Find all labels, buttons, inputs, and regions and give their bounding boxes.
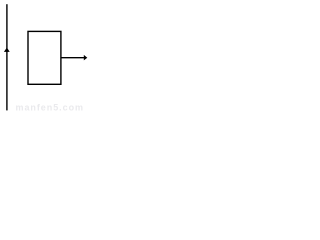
svg-text:manfen5.com: manfen5.com bbox=[16, 103, 84, 113]
arrowhead: rightward arrow bbox=[84, 55, 88, 61]
wire: left vertical line bbox=[6, 4, 8, 110]
block M: rectangle bbox=[28, 31, 61, 84]
arrowhead: upward arrow on left line bbox=[4, 48, 10, 52]
wire: horizontal arrow shaft from rectangle right side bbox=[61, 57, 85, 59]
